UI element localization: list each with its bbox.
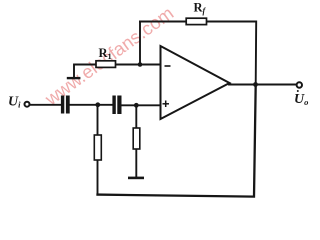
capacitor C1 plates — [61, 96, 70, 114]
wire right rail down to bottom — [98, 85, 256, 197]
wire bottom to R3 bottom — [97, 160, 99, 195]
wire node inverting up to Rf — [139, 22, 141, 65]
wire input Ui to C1 — [30, 104, 62, 106]
dot above Uo — [297, 90, 299, 92]
ground near R1 — [67, 77, 81, 79]
op-amp U1 triangle — [161, 46, 230, 119]
svg-text:Ui: Ui — [8, 95, 21, 110]
wire output — [229, 84, 297, 86]
node junction at output rail — [253, 82, 258, 87]
wire C2 to op-amp noninverting input — [121, 104, 160, 106]
capacitor C2 plates — [112, 96, 121, 115]
svg-text:Uo: Uo — [294, 92, 308, 107]
resistor Rf body — [186, 18, 206, 24]
resistor R2 body (right vertical) — [133, 128, 140, 149]
wire Rf top right segment to right rail — [207, 22, 257, 85]
svg-text:Rf: Rf — [194, 1, 207, 16]
wire ground stub to R1 — [74, 65, 96, 78]
node junction at inverting input — [138, 62, 143, 67]
wire node A down to R3 top — [97, 105, 99, 135]
wire R1 to inverting input — [116, 64, 161, 66]
op-amp plus sign — [163, 101, 170, 108]
wire Rf top left segment — [140, 21, 186, 23]
input terminal circle — [25, 102, 30, 107]
node junction between capacitors — [95, 102, 100, 107]
resistor R3 body (left vertical) — [94, 135, 101, 160]
wire R2 bottom to ground — [135, 149, 137, 177]
resistor R1 body — [96, 61, 116, 68]
ground below R2 — [128, 177, 144, 180]
output terminal circle — [297, 82, 302, 87]
wire node B down to R2 top — [135, 105, 137, 128]
watermark www.elecfans.com — [40, 2, 177, 110]
node junction at noninverting input — [134, 103, 139, 108]
wire C1 to C2 — [70, 104, 114, 106]
op-amp minus sign — [165, 65, 171, 67]
